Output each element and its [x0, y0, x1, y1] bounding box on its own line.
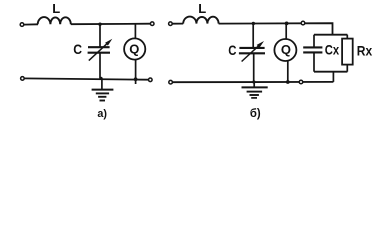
- terminal T7 (input bottom, b): [169, 80, 173, 84]
- wire: [287, 61, 289, 82]
- svg-text:L: L: [52, 1, 60, 16]
- svg-text:Q: Q: [281, 42, 291, 57]
- quartz resonator Q1 (a): [124, 38, 145, 59]
- terminal T4 (output bottom, a): [149, 78, 153, 82]
- svg-text:Q: Q: [129, 41, 139, 56]
- svg-text:L: L: [198, 1, 206, 16]
- wire: [135, 60, 137, 84]
- capacitor Cx: [303, 47, 322, 52]
- capacitor C2 (variable, b): [239, 41, 265, 62]
- wire: [24, 23, 38, 25]
- terminal T1 (input top, a): [20, 23, 24, 27]
- wire: [252, 24, 254, 48]
- inductor L (a): [38, 17, 71, 24]
- svg-text:Rx: Rx: [357, 42, 373, 58]
- wire: [313, 52, 315, 71]
- inductor L (b): [183, 17, 218, 24]
- node: C branch / top wire junction (b): [252, 22, 255, 25]
- svg-text:C: C: [228, 42, 236, 58]
- ground GND2 (b): [242, 82, 268, 98]
- wire: [332, 72, 334, 82]
- terminal T2 (output top, a): [150, 22, 154, 26]
- terminal T6 (output top ring, b): [301, 21, 305, 25]
- wire: [134, 24, 136, 38]
- wire: [71, 23, 150, 26]
- wire: [346, 35, 348, 39]
- node: Q branch / bottom wire junction (a): [134, 77, 138, 81]
- wire (top rail of CxRx): [314, 34, 347, 36]
- quartz resonator Q2 (b): [274, 39, 296, 61]
- node: ground junction (a): [99, 77, 102, 80]
- wire: [346, 65, 348, 72]
- node: ground junction (b): [252, 80, 255, 83]
- wire: [253, 53, 255, 82]
- wire (bottom rail, b): [172, 81, 334, 83]
- wire: [219, 23, 333, 35]
- svg-text:а): а): [97, 108, 107, 120]
- wire: [99, 24, 101, 47]
- ground GND1 (a): [92, 78, 114, 100]
- wire (bottom rail of CxRx): [314, 71, 347, 73]
- svg-text:б): б): [250, 108, 261, 120]
- wire (bottom rail, a): [24, 78, 149, 79]
- node: Q branch / bottom wire junction (b): [286, 80, 290, 84]
- capacitor C1 (variable, a): [88, 39, 113, 61]
- terminal T8 (output bottom ring, b): [299, 80, 303, 84]
- svg-text:C: C: [73, 41, 82, 57]
- resistor Rx: [342, 39, 353, 65]
- wire: [285, 23, 287, 39]
- svg-text:Cx: Cx: [325, 42, 340, 57]
- terminal T5 (input top, b): [169, 22, 173, 26]
- wire: [172, 23, 183, 25]
- wire: [313, 35, 315, 48]
- node: Q branch / top wire junction (b): [285, 22, 289, 26]
- terminal T3 (input bottom, a): [21, 77, 25, 81]
- node: C branch / top wire junction (a): [98, 23, 101, 26]
- wire: [99, 53, 101, 78]
